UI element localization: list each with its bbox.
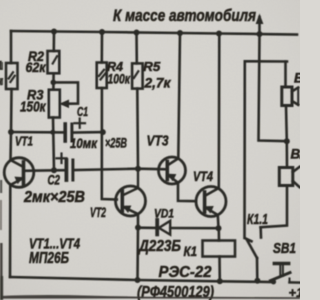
svg-text:VT2: VT2: [90, 204, 106, 220]
svg-text:РЭС-22: РЭС-22: [159, 264, 212, 281]
svg-text:×25В: ×25В: [105, 136, 127, 151]
svg-text:2,7к: 2,7к: [144, 75, 172, 91]
svg-text:Д223Б: Д223Б: [137, 238, 181, 255]
svg-text:100к: 100к: [108, 71, 131, 87]
svg-text:К1: К1: [184, 243, 198, 259]
svg-text:МП26Б: МП26Б: [29, 250, 69, 267]
svg-text:VD1: VD1: [154, 207, 174, 221]
svg-text:10мк: 10мк: [70, 136, 98, 151]
svg-text:R5: R5: [143, 59, 161, 74]
svg-text:2мк×25В: 2мк×25В: [23, 189, 85, 206]
svg-text:К1.1: К1.1: [247, 211, 268, 228]
svg-text:SВ1: SВ1: [273, 240, 296, 257]
svg-text:ВА2: ВА2: [291, 147, 301, 162]
svg-text:VT1: VT1: [15, 135, 33, 149]
svg-text:ВА1: ВА1: [294, 71, 300, 86]
svg-text:C1: C1: [77, 105, 88, 119]
svg-text:62к: 62к: [26, 59, 47, 75]
svg-text:К массе автомобиля: К массе автомобиля: [113, 6, 256, 25]
svg-text:VТ4: VТ4: [193, 169, 213, 184]
svg-text:VТ3: VТ3: [147, 133, 170, 150]
svg-text:150к: 150к: [20, 100, 46, 116]
svg-text:С2: С2: [48, 172, 61, 188]
